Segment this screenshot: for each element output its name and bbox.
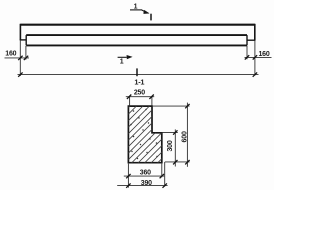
dimension 160 left: line xyxy=(5,57,30,59)
beam elevation: left ledge end xyxy=(25,35,27,45)
overall dimension line xyxy=(18,74,259,76)
svg-text:300: 300 xyxy=(167,140,174,151)
extension line left outer xyxy=(19,40,21,76)
beam elevation: left end face xyxy=(19,24,21,40)
beam elevation outline: top edge xyxy=(20,24,254,26)
beam elevation: left notch bottom xyxy=(20,39,27,41)
dim 600: bottom extension xyxy=(165,161,190,163)
overall dimension: right tick xyxy=(253,72,257,76)
section concrete dots xyxy=(130,109,158,159)
dim 250: line xyxy=(126,96,154,98)
section lower extensions xyxy=(128,162,164,188)
beam elevation: right notch bottom xyxy=(247,39,256,41)
beam elevation: right ledge end xyxy=(246,35,248,45)
dim 600: top extension xyxy=(153,105,190,107)
section mark 1 top: cut line xyxy=(150,14,152,21)
extension line right inner xyxy=(246,46,248,59)
dim 600: line xyxy=(186,103,188,167)
section mark 1 top: bar xyxy=(130,9,142,11)
section mark 1 bottom: arrow xyxy=(127,56,131,59)
dim 250: tick right xyxy=(149,95,153,99)
section hatching xyxy=(66,95,232,170)
section mark 1 bottom: bar xyxy=(118,56,127,58)
dim 390: tick left xyxy=(126,183,130,187)
dim 600: tick bottom xyxy=(185,160,189,164)
dim 300: tick bottom xyxy=(173,160,177,164)
extension line right outer xyxy=(254,41,256,76)
dim 390: line xyxy=(117,185,167,187)
svg-text:250: 250 xyxy=(134,89,145,96)
svg-text:160: 160 xyxy=(258,51,269,58)
svg-text:390: 390 xyxy=(141,180,152,187)
dimension 160 left: tick b xyxy=(24,56,28,60)
beam elevation: ledge step line xyxy=(26,34,247,36)
dim 300: step extension xyxy=(162,132,178,134)
dim 300: line xyxy=(174,129,176,166)
dim 250: tick left xyxy=(127,95,131,99)
svg-text:360: 360 xyxy=(140,169,151,176)
dim 360: line xyxy=(124,175,164,177)
svg-text:160: 160 xyxy=(5,51,16,58)
dim 300: tick top xyxy=(173,130,177,134)
beam elevation: right end face xyxy=(254,24,256,40)
beam elevation: bottom edge xyxy=(26,44,247,46)
dim 360: tick right xyxy=(160,174,164,178)
svg-text:1-1: 1-1 xyxy=(134,78,144,87)
overall dimension: left tick xyxy=(18,72,22,76)
dimension 160 left: tick a xyxy=(18,56,22,60)
dimension 160 right: tick b xyxy=(253,55,257,59)
dim 390: tick right xyxy=(163,183,167,187)
svg-text:600: 600 xyxy=(182,131,189,142)
svg-text:1: 1 xyxy=(120,59,124,66)
dimension 160 right: tick a xyxy=(245,55,249,59)
dim 360: tick left xyxy=(126,174,130,178)
section body (L-shape) xyxy=(128,106,161,163)
section mark 1 top: arrow xyxy=(142,10,146,12)
dim 600: tick top xyxy=(185,104,189,108)
section mark 1 bottom: cut line xyxy=(136,68,138,76)
extension line left inner xyxy=(25,46,27,60)
dim 250: extension lines xyxy=(130,96,152,106)
dimension 160 right: line xyxy=(245,56,272,58)
